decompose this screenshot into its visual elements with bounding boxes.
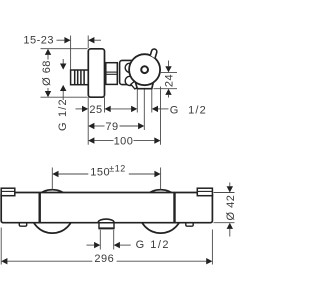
dim Ø42 extension lines — [214, 183, 235, 237]
right grip tab — [197, 188, 212, 196]
outlet trapezoid — [135, 80, 154, 89]
svg-text:24: 24 — [164, 74, 176, 87]
svg-text:Ø 68: Ø 68 — [41, 60, 53, 86]
left escutcheon circle — [31, 190, 74, 233]
right escutcheon circle — [139, 190, 182, 233]
svg-text:G 1/2: G 1/2 — [57, 98, 69, 131]
svg-text:15-23: 15-23 — [23, 34, 54, 46]
dim Ø68 extension lines — [41, 49, 88, 97]
dim 24 vertical — [154, 61, 178, 98]
handle lever knob — [150, 49, 157, 58]
extension lines below valve — [88, 87, 160, 145]
svg-text:±12: ±12 — [109, 164, 125, 174]
dim 25 row — [76, 108, 132, 110]
mixer bar body — [1, 193, 212, 223]
handle grip lobe lower — [125, 76, 134, 85]
dim 15-23 leader lines and extension lines — [57, 36, 102, 70]
dim 296 row — [7, 260, 206, 262]
handle center circle — [141, 66, 148, 73]
dim G 1/2 left vertical leader — [62, 59, 64, 100]
outlet dome — [98, 219, 114, 222]
svg-text:100: 100 — [114, 135, 134, 147]
left grip tab — [1, 188, 15, 196]
svg-text:296: 296 — [94, 253, 114, 265]
left safety button — [19, 223, 26, 226]
left handle junction — [39, 193, 41, 223]
dim 100 row — [94, 140, 154, 142]
dim 150 row — [59, 173, 155, 175]
svg-text:25: 25 — [89, 104, 102, 116]
svg-text:150: 150 — [90, 167, 110, 179]
outlet extension lines — [100, 230, 113, 250]
svg-text:G 1/2: G 1/2 — [136, 239, 170, 251]
dim 15-23 arrows — [64, 37, 70, 43]
svg-text:79: 79 — [105, 121, 118, 133]
dim Ø68 arrows — [45, 49, 51, 55]
outlet stub — [98, 222, 114, 228]
right safety button — [186, 223, 193, 226]
dim 296 extension lines — [1, 228, 212, 265]
svg-text:Ø 42: Ø 42 — [225, 195, 236, 221]
hex nut side view — [106, 63, 118, 85]
threaded nipple wall connection — [71, 70, 89, 85]
dim 150 extension lines — [52, 168, 160, 190]
right handle junction — [173, 193, 175, 223]
escutcheon disc side view — [88, 49, 104, 97]
svg-text:G 1/2: G 1/2 — [170, 104, 207, 116]
dim G 1/2 bottom row — [87, 244, 131, 246]
dim 79 row — [94, 125, 138, 127]
handle grip lobe upper — [125, 63, 134, 72]
handle front view circle — [129, 54, 160, 85]
outlet ear facet — [131, 81, 138, 89]
valve body plate behind handle — [120, 60, 142, 84]
label G 1/2 right — [158, 108, 169, 110]
